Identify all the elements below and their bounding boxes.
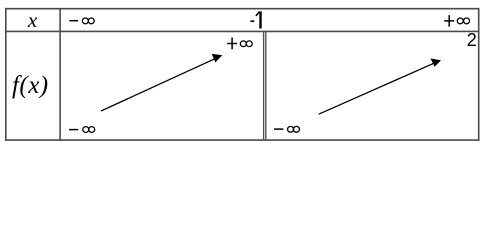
left cell lower bound minus infinity: minus stroke — [69, 129, 78, 131]
table outer border bottom — [5, 139, 479, 141]
header minus infinity: minus stroke — [69, 20, 78, 22]
discontinuity double bar right line — [265, 31, 267, 140]
svg-text:f(x): f(x) — [12, 72, 49, 99]
header value -1: digit one flag — [256, 12, 260, 16]
left cell upper bound plus infinity: plus horizontal stroke — [227, 43, 237, 45]
svg-text:2: 2 — [467, 30, 477, 50]
header plus infinity: plus horizontal stroke — [444, 20, 454, 22]
header plus infinity: infinity loops — [457, 18, 469, 24]
header value -1: digit one stem — [259, 11, 261, 28]
discontinuity double bar left line — [263, 31, 265, 140]
table outer border right — [478, 8, 480, 141]
header minus infinity: infinity loops — [82, 18, 94, 24]
right increasing arrow head — [431, 58, 442, 66]
table outer border top — [5, 8, 479, 10]
header value -1: hyphen stroke — [251, 20, 255, 22]
header plus infinity: plus vertical stroke — [448, 15, 450, 27]
right increasing arrow shaft — [319, 63, 434, 114]
left cell upper bound plus infinity: infinity loops — [240, 41, 252, 47]
left cell upper bound plus infinity: plus vertical stroke — [231, 38, 233, 50]
row divider line — [5, 30, 479, 32]
right cell lower bound minus infinity: minus stroke — [274, 128, 283, 130]
left cell lower bound minus infinity: infinity loops — [83, 127, 95, 133]
svg-text:x: x — [27, 8, 38, 32]
left increasing arrow head — [212, 54, 223, 63]
right cell lower bound minus infinity: infinity loops — [288, 126, 300, 132]
left increasing arrow shaft — [101, 59, 215, 111]
column divider line — [59, 8, 61, 141]
table outer border left — [5, 8, 7, 141]
